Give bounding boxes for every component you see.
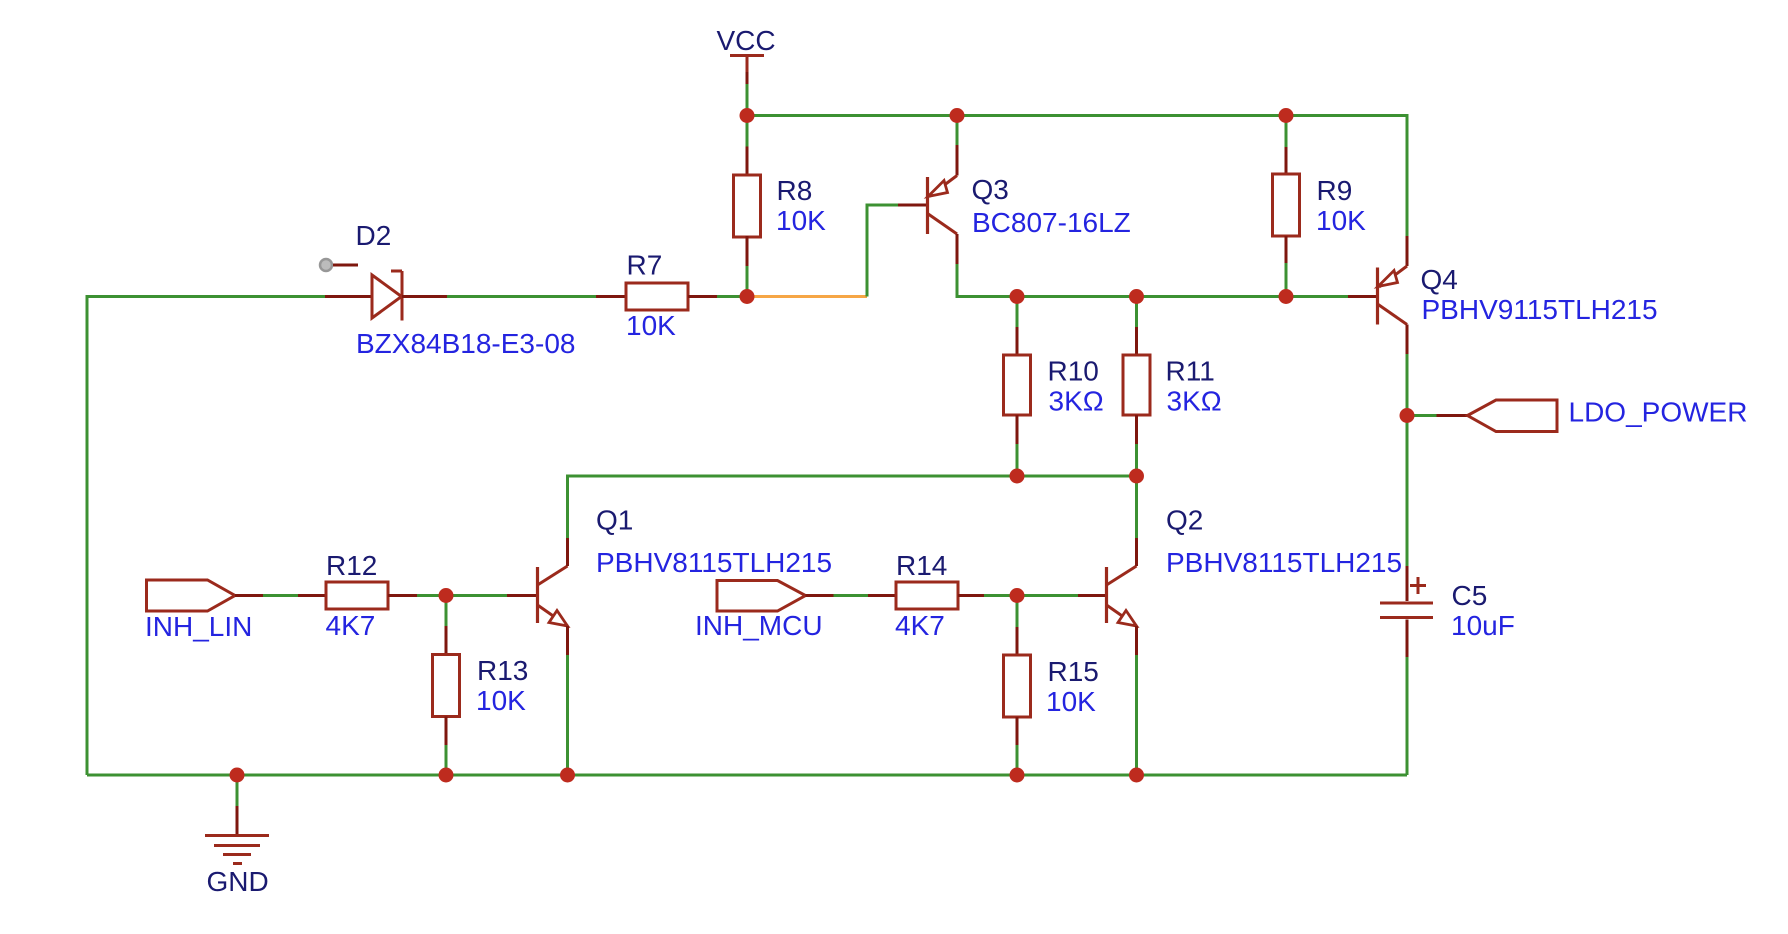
junction Q3 emitter top <box>950 108 965 123</box>
diode D2 zener BZX84B18 <box>320 220 575 359</box>
wire R14 to node <box>984 594 1017 597</box>
wire R15 top lead <box>1016 596 1019 628</box>
wire INH_LIN stub <box>263 594 298 597</box>
junction R9 bottom <box>1279 289 1294 304</box>
svg-text:10K: 10K <box>1046 686 1096 717</box>
svg-text:R15: R15 <box>1048 656 1099 687</box>
svg-text:4K7: 4K7 <box>326 610 376 641</box>
wire INH_MCU stub <box>834 594 869 597</box>
resistor R9 <box>1273 147 1367 263</box>
svg-text:PBHV8115TLH215: PBHV8115TLH215 <box>596 547 832 578</box>
svg-text:R14: R14 <box>896 550 947 581</box>
svg-text:VCC: VCC <box>717 25 776 56</box>
svg-text:10K: 10K <box>476 685 526 716</box>
wire GND stub <box>236 775 239 806</box>
wire R11 bottom lead <box>1135 444 1138 476</box>
svg-text:10K: 10K <box>776 205 826 236</box>
svg-text:10uF: 10uF <box>1451 610 1515 641</box>
svg-text:LDO_POWER: LDO_POWER <box>1569 397 1748 428</box>
svg-text:Q1: Q1 <box>596 505 633 536</box>
junction R14-R15 Q2 base <box>1010 588 1025 603</box>
wire VCC stem <box>746 84 749 116</box>
wire R9 top lead <box>1285 116 1288 148</box>
wire R13 bottom lead <box>445 745 448 775</box>
output flag LDO_POWER <box>1437 397 1748 432</box>
wire R11 top lead <box>1135 297 1138 328</box>
wire orange net R7 node to Q3 base riser <box>747 295 867 298</box>
resistor R13 <box>433 626 529 745</box>
wire C5 bottom to bottom rail <box>1406 657 1409 775</box>
svg-text:R8: R8 <box>777 175 813 206</box>
wire VCC top rail to right corner <box>747 116 1407 237</box>
resistor R8 <box>734 147 827 267</box>
svg-text:R9: R9 <box>1317 175 1353 206</box>
wire Q1 emitter to bottom rail <box>566 655 569 775</box>
wire Q2 base lead <box>1017 594 1078 597</box>
svg-text:GND: GND <box>207 866 269 897</box>
svg-text:C5: C5 <box>1452 580 1488 611</box>
svg-text:INH_MCU: INH_MCU <box>695 610 823 641</box>
wire Q3 emitter lead <box>956 116 959 146</box>
wire left rail <box>87 297 325 776</box>
svg-text:Q2: Q2 <box>1166 505 1203 536</box>
junction Q1 emitter bottom <box>560 768 575 783</box>
svg-text:10K: 10K <box>1316 205 1366 236</box>
svg-text:R10: R10 <box>1048 356 1099 387</box>
wire mid rail to Q1 collector <box>568 476 1137 538</box>
resistor R7 <box>596 250 717 342</box>
transistor Q4 PNP PBHV9115 <box>1348 236 1658 354</box>
wire D2 to R7 <box>447 295 596 298</box>
junction R10 top <box>1010 289 1025 304</box>
junction R9 top <box>1279 108 1294 123</box>
wire R7 to node <box>717 295 747 298</box>
wire Q1 base lead <box>446 594 507 597</box>
svg-text:10K: 10K <box>626 310 676 341</box>
wire LDO_POWER stub <box>1407 414 1437 417</box>
wire R10 top lead <box>1016 297 1019 328</box>
svg-text:R12: R12 <box>326 550 377 581</box>
resistor R14 <box>868 550 984 641</box>
wire Q4 collector down to C5 <box>1406 354 1409 566</box>
svg-text:PBHV9115TLH215: PBHV9115TLH215 <box>1422 294 1658 325</box>
transistor Q2 NPN PBHV8115 <box>1078 505 1402 656</box>
wire bottom rail <box>87 774 1407 777</box>
wire Q2 collector lead <box>1135 476 1138 538</box>
svg-text:R13: R13 <box>477 655 528 686</box>
wire R15 bottom lead <box>1016 745 1019 775</box>
junction R15 bottom <box>1010 768 1025 783</box>
svg-text:INH_LIN: INH_LIN <box>145 611 252 642</box>
wire R13 top lead <box>445 596 448 627</box>
svg-text:BC807-16LZ: BC807-16LZ <box>972 207 1131 238</box>
junction R11 bottom Q2 collector <box>1129 469 1144 484</box>
svg-text:Q3: Q3 <box>972 174 1009 205</box>
resistor R10 <box>1004 327 1104 444</box>
wire Q3 base riser <box>867 205 898 297</box>
wire Q3 collector to mid row <box>957 264 1348 297</box>
ground GND <box>205 806 269 897</box>
junction R13 bottom <box>439 768 454 783</box>
wire R8 bottom lead <box>746 266 749 297</box>
junction R10 bottom <box>1010 469 1025 484</box>
svg-text:BZX84B18-E3-08: BZX84B18-E3-08 <box>356 328 575 359</box>
capacitor C5 polarized <box>1380 566 1515 657</box>
junction R12-R13 Q1 base <box>439 588 454 603</box>
transistor Q1 NPN PBHV8115 <box>507 505 832 656</box>
power symbol VCC <box>717 25 776 84</box>
junction GND node <box>230 768 245 783</box>
wire R8 top lead <box>746 116 749 147</box>
resistor R11 <box>1123 327 1222 444</box>
svg-text:3KΩ: 3KΩ <box>1049 386 1104 417</box>
wire R12 to node <box>417 594 446 597</box>
svg-text:D2: D2 <box>356 220 392 251</box>
wire Q2 emitter to bottom rail <box>1135 655 1138 775</box>
input flag INH_MCU <box>695 581 834 642</box>
svg-text:R11: R11 <box>1166 356 1215 387</box>
resistor R15 <box>1004 627 1099 745</box>
junction LDO_POWER node <box>1400 408 1415 423</box>
svg-text:4K7: 4K7 <box>895 610 945 641</box>
input flag INH_LIN <box>145 580 263 642</box>
wire R9 bottom lead <box>1285 263 1288 297</box>
svg-text:R7: R7 <box>627 250 663 281</box>
svg-text:PBHV8115TLH215: PBHV8115TLH215 <box>1166 547 1402 578</box>
junction R11 top <box>1129 289 1144 304</box>
resistor R12 <box>298 550 417 641</box>
junction R7-R8 node <box>740 289 755 304</box>
junction Q2 emitter bottom <box>1129 768 1144 783</box>
transistor Q3 PNP BC807 <box>898 145 1131 264</box>
svg-text:Q4: Q4 <box>1421 264 1458 295</box>
junction VCC-R8 top <box>740 108 755 123</box>
wire R10 bottom lead <box>1016 444 1019 476</box>
svg-text:3KΩ: 3KΩ <box>1167 386 1222 417</box>
